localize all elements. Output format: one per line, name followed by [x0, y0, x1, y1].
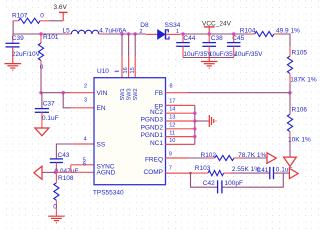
svg-text:R105: R105 [292, 50, 308, 57]
svg-text:11: 11 [169, 131, 175, 137]
pin 2 VIN [71, 92, 95, 94]
svg-text:FREQ: FREQ [145, 157, 163, 164]
ground under caps [201, 62, 218, 69]
svg-text:VIN: VIN [97, 90, 108, 97]
resistor R101 [38, 34, 59, 71]
pin 11 PGND1 [166, 136, 195, 138]
wire VCC rail [180, 33, 248, 35]
svg-text:NC2: NC2 [150, 109, 163, 116]
svg-text:100pF: 100pF [225, 180, 243, 187]
svg-text:0: 0 [53, 203, 57, 210]
svg-text:0.1uF: 0.1uF [42, 115, 59, 122]
pin 7 COMP [166, 172, 191, 174]
diode D8 SS34 [139, 22, 180, 39]
power arrow right COMP [289, 168, 298, 178]
wire EP bus [194, 105, 196, 144]
wire SW2 drop [134, 34, 136, 56]
node junctions EP bus [193, 112, 196, 115]
svg-text:7: 7 [169, 166, 172, 172]
node junctions SW drops [120, 32, 123, 35]
svg-text:C43: C43 [58, 152, 70, 159]
node junction SS net [54, 171, 57, 174]
svg-text:SS34: SS34 [165, 22, 181, 29]
wire SW3 drop [128, 34, 130, 56]
wire R106 down [289, 142, 291, 157]
pin 10 NC1 [166, 143, 195, 145]
svg-text:14: 14 [169, 107, 175, 113]
svg-text:16: 16 [123, 67, 129, 73]
ground under C39 [5, 64, 22, 71]
capacitor C45 [227, 34, 263, 58]
svg-text:NC1: NC1 [150, 140, 163, 147]
pin 17 EP [166, 104, 195, 106]
wire C39 to ground [12, 47, 14, 64]
node junctions cap rail [181, 32, 184, 35]
pin 8 FB [166, 92, 188, 94]
svg-text:R108: R108 [58, 175, 74, 182]
wire C42 right branch [222, 173, 283, 187]
wire FREQ to R102 [188, 157, 206, 159]
svg-text:C38: C38 [211, 35, 223, 42]
svg-text:FB: FB [155, 90, 163, 97]
svg-text:TPS55340: TPS55340 [93, 190, 124, 197]
power VCC_24V [202, 20, 232, 34]
svg-text:EN: EN [97, 105, 106, 112]
wire SW rail [106, 33, 146, 35]
svg-text:9: 9 [169, 151, 172, 157]
svg-text:AGND: AGND [97, 170, 116, 177]
svg-text:3: 3 [84, 98, 87, 104]
pin 14 NC2 [166, 112, 195, 114]
svg-text:13: 13 [169, 114, 175, 120]
wire rail left [13, 33, 65, 35]
ground under R108 [48, 216, 65, 223]
pin number 1 rotated [115, 70, 119, 72]
capacitor C43 [50, 152, 79, 175]
wire COMP branch [191, 173, 218, 187]
svg-text:0: 0 [40, 64, 44, 71]
wire R107 to 3.6V [49, 20, 63, 22]
wire R103 to C41 [231, 172, 270, 174]
svg-text:C42: C42 [203, 180, 215, 187]
power 3.6V [54, 4, 68, 21]
svg-text:6: 6 [83, 161, 86, 167]
pin 6 AGND [71, 171, 94, 173]
resistor R108 [53, 172, 74, 216]
power arrow right FREQ [267, 153, 276, 164]
wire R101 to VIN rail [40, 68, 42, 93]
wire EN drop [63, 93, 70, 108]
svg-text:22uF/10V: 22uF/10V [12, 51, 41, 58]
wire R105 to FB node [289, 84, 291, 93]
wire left vertical [12, 21, 14, 34]
pin 3 EN [71, 107, 95, 109]
svg-text:R103: R103 [195, 165, 211, 172]
wire AGND to node [55, 171, 71, 173]
svg-text:COMP: COMP [144, 169, 164, 176]
capacitor C39 [6, 35, 41, 58]
wire VIN row [41, 92, 71, 94]
capacitor C37 [35, 93, 59, 128]
pin 13 PGND3 [166, 120, 195, 122]
wire SS [56, 144, 72, 159]
resistor R107 [12, 12, 49, 23]
ground sideways [209, 115, 216, 127]
svg-text:187K 1%: 187K 1% [290, 77, 317, 84]
node junction VIN-1 [39, 91, 42, 94]
wire R102 to arrow [243, 157, 267, 159]
svg-text:C39: C39 [12, 35, 24, 42]
svg-text:SW1: SW1 [120, 88, 126, 100]
resistor R106 [287, 93, 311, 144]
svg-text:SW2: SW2 [133, 88, 139, 100]
svg-text:R106: R106 [292, 106, 308, 113]
svg-text:15: 15 [130, 67, 136, 73]
svg-text:2: 2 [84, 83, 87, 89]
wire FB [188, 92, 291, 94]
capacitor C44 [176, 34, 212, 58]
svg-text:SS: SS [97, 142, 106, 149]
wire cap ground bus [183, 57, 234, 59]
wire SW1 drop [121, 34, 123, 56]
wire bus to ground [195, 120, 209, 122]
pin 4 SS [73, 143, 94, 145]
svg-text:C41: C41 [257, 167, 269, 174]
svg-text:PGND1: PGND1 [141, 132, 164, 139]
svg-text:D8: D8 [140, 22, 149, 29]
pin 12 PGND2 [166, 128, 195, 130]
resistor R103 [191, 165, 261, 176]
inductor L5 [63, 28, 128, 35]
svg-text:3.6V: 3.6V [54, 4, 68, 11]
svg-text:4: 4 [84, 137, 87, 143]
wire C41 to arrow [274, 172, 290, 174]
node junction at R101 top [39, 32, 42, 35]
power arrow down under R106 [284, 157, 297, 166]
svg-text:0: 0 [40, 13, 44, 20]
resistor R104 [240, 28, 300, 37]
svg-text:R101: R101 [43, 34, 59, 41]
resistor R105 [287, 47, 317, 84]
capacitor C42 [203, 180, 243, 194]
node junction FB [288, 91, 291, 94]
node junction COMP [189, 172, 192, 175]
power arrow down under C37 [35, 128, 49, 136]
op chip U10 TPS55340 [93, 68, 166, 197]
svg-text:PGND3: PGND3 [141, 117, 164, 124]
wire R104 to R105 [281, 34, 290, 47]
pin 5 SYNC [71, 164, 94, 166]
resistor R102 [201, 152, 267, 161]
svg-text:SW3: SW3 [127, 88, 133, 100]
svg-text:C37: C37 [43, 101, 55, 108]
svg-text:C44: C44 [183, 35, 195, 42]
power arrow left [34, 166, 42, 179]
node junction VIN-2 [62, 91, 65, 94]
svg-text:17: 17 [169, 99, 175, 105]
capacitor C38 [202, 34, 237, 58]
svg-text:10uF/35V: 10uF/35V [234, 51, 263, 58]
svg-text:10K 1%: 10K 1% [288, 136, 311, 143]
capacitor C41 [257, 167, 293, 180]
svg-text:10: 10 [169, 138, 175, 144]
svg-text:12: 12 [169, 123, 175, 129]
pin 9 FREQ [166, 157, 189, 159]
svg-text:U10: U10 [97, 68, 109, 75]
svg-text:PGND2: PGND2 [141, 124, 164, 131]
svg-text:8: 8 [170, 84, 173, 90]
wire SYNC drop [70, 165, 72, 173]
svg-text:2: 2 [139, 29, 142, 35]
